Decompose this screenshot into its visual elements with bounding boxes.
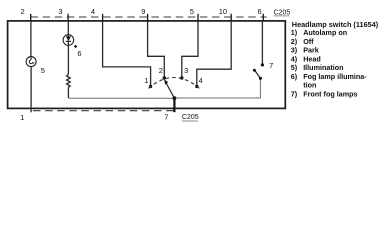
svg-text:3: 3: [184, 66, 188, 75]
svg-text:6: 6: [77, 49, 81, 58]
svg-text:tion: tion: [303, 81, 316, 90]
svg-text:6: 6: [258, 7, 262, 16]
svg-text:C205: C205: [182, 114, 199, 121]
svg-text:C205: C205: [274, 9, 291, 16]
svg-text:Autolamp on: Autolamp on: [303, 28, 347, 37]
svg-text:5: 5: [41, 66, 45, 75]
svg-text:10: 10: [219, 7, 227, 16]
svg-text:1): 1): [291, 28, 298, 37]
svg-text:7: 7: [164, 113, 168, 122]
svg-text:2: 2: [21, 7, 25, 16]
svg-text:Front fog lamps: Front fog lamps: [303, 90, 357, 99]
svg-text:Fog lamp illumina-: Fog lamp illumina-: [303, 72, 367, 81]
svg-text:Illumination: Illumination: [303, 63, 343, 72]
svg-text:5): 5): [291, 63, 298, 72]
svg-text:3): 3): [291, 46, 298, 55]
svg-text:4: 4: [91, 7, 95, 16]
svg-text:Off: Off: [303, 37, 314, 46]
svg-text:7: 7: [269, 61, 273, 70]
svg-text:6): 6): [291, 72, 298, 81]
svg-text:4: 4: [199, 76, 203, 85]
svg-text:2): 2): [291, 37, 298, 46]
svg-text:1: 1: [20, 113, 24, 122]
svg-text:9: 9: [141, 7, 145, 16]
svg-text:5: 5: [190, 7, 194, 16]
svg-text:2: 2: [159, 66, 163, 75]
svg-text:Head: Head: [303, 54, 321, 63]
svg-text:4): 4): [291, 54, 298, 63]
svg-text:7): 7): [291, 90, 298, 99]
svg-text:Park: Park: [303, 46, 319, 55]
svg-text:1: 1: [144, 76, 148, 85]
svg-text:3: 3: [58, 7, 62, 16]
